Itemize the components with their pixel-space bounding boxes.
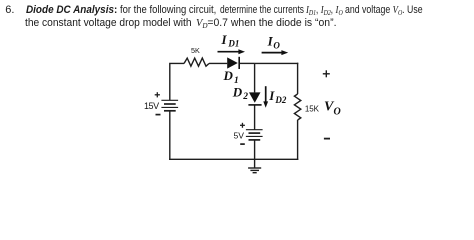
svg-text:O: O [273, 41, 280, 51]
current arrow ID2 [263, 86, 268, 108]
plus sign 15V [155, 92, 160, 97]
svg-text:I: I [221, 32, 228, 47]
resistor 15K [294, 94, 300, 120]
current arrow IO [262, 50, 289, 55]
svg-text:D: D [223, 68, 234, 83]
wire bottom right corner to ground junction [255, 158, 299, 160]
ground [248, 168, 261, 173]
wire node A down to D2 anode [254, 63, 256, 92]
wire top-left corner to 5K resistor [170, 63, 184, 100]
label D2 [232, 84, 249, 102]
minus sign VO [324, 138, 330, 140]
svg-text:D2: D2 [274, 95, 286, 105]
minus sign 15V [156, 114, 161, 116]
svg-text:5K: 5K [191, 46, 200, 55]
heading line 2 [25, 17, 192, 29]
diode D1 [227, 57, 239, 69]
label D1 [223, 68, 239, 86]
svg-text:D1: D1 [227, 39, 239, 49]
battery 15V [161, 100, 178, 111]
wire bottom-left corner up to 15V battery minus [169, 111, 171, 160]
svg-text:2: 2 [242, 92, 248, 102]
plus sign 5V [240, 123, 245, 128]
minus sign 5V [240, 143, 245, 145]
battery 5V [246, 130, 263, 140]
label ID1 [221, 32, 240, 49]
heading line 1 [26, 4, 117, 16]
svg-text:I: I [268, 88, 275, 103]
heading list number [5, 4, 14, 16]
wire 5K to diode D1 anode [209, 62, 227, 64]
wire right side down to 15K resistor [297, 63, 299, 94]
wire D2 cathode to 5V battery [254, 105, 256, 130]
label IO [267, 33, 281, 50]
svg-text:5V: 5V [234, 130, 245, 140]
svg-text:O: O [334, 106, 341, 117]
label VO [324, 100, 341, 118]
wire D1 cathode to node A [239, 62, 254, 64]
svg-text:D: D [232, 84, 243, 99]
svg-text:15K: 15K [305, 104, 320, 113]
wire 15K to bottom-right corner [297, 120, 299, 160]
current arrow ID1 [218, 49, 246, 54]
wire node A to top-right corner [255, 62, 299, 64]
resistor 5K [184, 58, 209, 66]
plus sign VO [323, 70, 330, 77]
wire 5V battery to ground [254, 140, 256, 168]
diode D2 [248, 92, 261, 105]
svg-text:15V: 15V [144, 101, 159, 111]
wire ground junction to bottom-left corner [169, 158, 255, 160]
label ID2 [268, 88, 287, 105]
